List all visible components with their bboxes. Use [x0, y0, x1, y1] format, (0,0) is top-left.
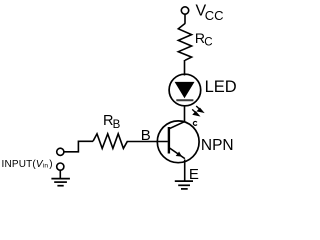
svg-text:CC: CC — [205, 8, 224, 23]
svg-text:B: B — [141, 127, 151, 144]
svg-text:LED: LED — [205, 78, 237, 96]
svg-text:C: C — [204, 37, 212, 49]
svg-text:B: B — [113, 119, 121, 131]
svg-text:NPN: NPN — [201, 137, 234, 154]
